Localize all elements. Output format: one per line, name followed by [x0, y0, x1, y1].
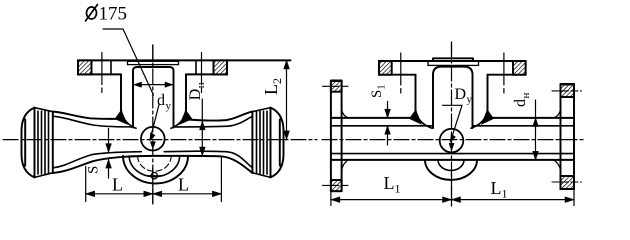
svg-text:L: L: [384, 173, 395, 193]
bolt axis right: [503, 53, 505, 93]
dimension L line: [86, 193, 222, 195]
venturi outer top contour: [53, 112, 121, 119]
top flange plate right view: [379, 60, 526, 62]
svg-text:L: L: [112, 175, 123, 195]
right pipe flange hatches: [561, 85, 575, 98]
svg-text:y: y: [467, 94, 473, 106]
svg-text:y: y: [166, 100, 172, 112]
weld seam right junction: [482, 110, 494, 125]
left cap band edge: [52, 112, 54, 173]
flange outer edges: [77, 60, 79, 74]
svg-text:D: D: [187, 89, 204, 101]
bottom boss middle arc: [129, 156, 179, 177]
neck-body fillet curves: [416, 109, 488, 128]
svg-text:D: D: [455, 86, 467, 103]
pipe outer bottom line: [331, 159, 574, 161]
bottom boss bolt-circle dashed arc: [138, 156, 172, 171]
svg-text:d: d: [512, 99, 529, 107]
horizontal centerline right view: [322, 139, 584, 141]
drain hole circle: [151, 173, 157, 179]
label dn (rotated): [512, 93, 532, 108]
venturi bore bottom contour: [53, 152, 142, 168]
labels L and L: [112, 175, 189, 195]
bottom boss outer arc: [123, 156, 188, 184]
svg-text:L: L: [491, 178, 502, 198]
bonnet lid right view (two tiers): [433, 58, 473, 61]
bonnet lid left view: [128, 61, 179, 64]
pipe bore bottom line: [331, 153, 574, 155]
dimension L extension lines: [86, 158, 222, 202]
ball plug circle left view: [141, 127, 165, 151]
horizontal centerline left view: [3, 139, 317, 141]
svg-text:S: S: [86, 166, 102, 174]
dimension dn vertical: [535, 100, 537, 160]
svg-text:н: н: [195, 82, 207, 88]
leader line Ø175: [103, 29, 154, 95]
bottom boss right view inner arc: [438, 160, 464, 171]
left pipe flange hatches: [331, 81, 342, 92]
weld seam left junction: [410, 110, 422, 125]
ball plug circle right view: [440, 129, 464, 153]
weld seam right junction: [180, 110, 192, 124]
flange hatched section left: [78, 60, 92, 74]
top flange plate left view (top line incl. L2 extension): [78, 59, 291, 61]
svg-text:2: 2: [270, 78, 284, 84]
flange bottom lines: [78, 73, 121, 75]
left pipe flange: [331, 81, 342, 192]
pipe outer top line: [331, 117, 574, 119]
svg-text:S: S: [369, 90, 385, 98]
bolt axis right: [201, 53, 203, 93]
flange step edges: [110, 60, 112, 74]
bolt axis left: [400, 53, 402, 93]
label dy: [157, 92, 172, 112]
dimension L1 line: [331, 199, 574, 201]
right flange bolt dashes: [552, 91, 582, 182]
label S (rotated): [86, 166, 102, 174]
svg-text:н: н: [520, 93, 532, 99]
vertical centerline right view: [451, 42, 453, 206]
svg-text:1: 1: [395, 182, 401, 196]
neck-body fillet curves: [121, 109, 186, 128]
flange fillets: [342, 110, 561, 171]
dimension S1: [387, 102, 389, 146]
right cap band edge: [251, 112, 253, 173]
left cap (union end): [22, 108, 35, 178]
pipe bore top line: [331, 125, 574, 127]
venturi bore top contour: [53, 116, 133, 127]
dimension Dn vertical: [201, 99, 203, 156]
neck chamber (bore) walls: [133, 67, 174, 128]
bonnet neck outer walls: [120, 74, 122, 118]
L arrowheads: [86, 191, 95, 197]
svg-text:1: 1: [502, 187, 508, 201]
L1 arrowheads: [331, 197, 340, 203]
flange hatched section right: [513, 61, 526, 75]
labels L1 and L1: [384, 173, 508, 201]
label Dy: [455, 86, 473, 106]
label S1 (rotated): [369, 85, 388, 99]
flange hatched section right: [214, 60, 228, 74]
leader Dy to ball: [443, 105, 463, 141]
flange hatched section left: [379, 61, 392, 75]
label Ø175: [99, 4, 128, 25]
svg-text:175: 175: [99, 4, 128, 25]
svg-text:1: 1: [377, 85, 388, 90]
weld seam left junction: [115, 110, 127, 124]
left flange bolt dashes: [323, 86, 349, 185]
neck outer walls right view: [416, 75, 488, 118]
bottom boss right view outer arc: [425, 160, 477, 180]
svg-text:L: L: [261, 84, 281, 95]
left cap rib lines: [38, 111, 49, 174]
dimension S (wall thickness): [108, 129, 110, 179]
dimension L1 extension lines: [331, 189, 574, 206]
label L2 (rotated): [261, 78, 284, 95]
venturi outer bottom contour: [53, 156, 253, 173]
drain hole axis dash: [146, 175, 163, 177]
right pipe flange: [561, 84, 575, 189]
bolt axis left: [101, 53, 103, 93]
right cap (union end): [271, 108, 284, 178]
right cap rib lines: [257, 111, 268, 174]
dimension dy arrows: [134, 84, 173, 86]
vertical centerline left view: [152, 45, 154, 204]
svg-text:L: L: [178, 175, 189, 195]
dimension L2: [286, 60, 288, 139]
chamber dome walls: [433, 67, 473, 128]
leader dy to ball: [150, 105, 159, 140]
label Dn (rotated): [187, 82, 207, 100]
